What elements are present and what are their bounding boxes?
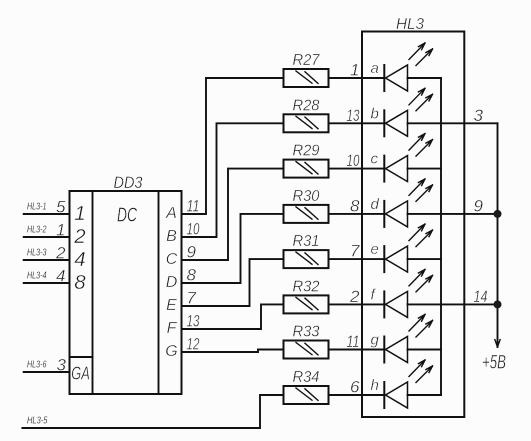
wire LED a anode to bus <box>408 77 442 79</box>
LED c cathode bar <box>383 156 385 182</box>
svg-text:h: h <box>371 377 379 394</box>
svg-text:DD3: DD3 <box>114 173 143 192</box>
svg-text:6: 6 <box>350 378 360 397</box>
LED a light arrows <box>409 43 433 66</box>
wire net HL3-5 to resistor R34 <box>22 395 283 428</box>
junction dot pin 9 <box>494 210 502 218</box>
wire into LED h <box>362 394 384 396</box>
svg-text:A: A <box>165 205 177 222</box>
wire into LED e <box>362 258 384 260</box>
svg-text:12: 12 <box>187 335 200 354</box>
wire R32 to HL3 pin 2 <box>329 303 363 305</box>
wire R31 to HL3 pin 7 <box>329 258 363 260</box>
wire DD3 C pin 9 to resistor R29 <box>182 169 284 260</box>
wire input net HL3-1 to DD3 <box>24 213 70 215</box>
wire +5V rail <box>497 123 499 347</box>
wire LED h anode to bus <box>408 394 442 396</box>
wire LED f anode to +5V rail pin 14 <box>408 303 498 305</box>
svg-text:c: c <box>371 151 379 168</box>
resistor R31 <box>284 250 329 268</box>
resistor R29 <box>284 160 329 178</box>
junction dot pin 14 <box>494 300 502 308</box>
wire DD3 F pin 13 to resistor R32 <box>182 304 284 329</box>
svg-text:HL3-2: HL3-2 <box>27 225 47 236</box>
wire DD3 G pin 12 to resistor R33 <box>182 350 284 353</box>
svg-text:8: 8 <box>350 196 360 215</box>
wire R29 to HL3 pin 10 <box>329 168 363 170</box>
svg-text:3: 3 <box>474 106 484 125</box>
wire LED g anode to bus <box>408 349 442 351</box>
wire into LED g <box>362 349 384 351</box>
LED a cathode bar <box>383 65 385 91</box>
wire into LED a <box>362 77 384 79</box>
svg-text:B: B <box>166 228 177 245</box>
svg-text:14: 14 <box>474 287 488 306</box>
svg-text:GA: GA <box>71 364 90 384</box>
svg-text:10: 10 <box>347 151 360 170</box>
svg-text:13: 13 <box>347 106 360 125</box>
svg-text:C: C <box>166 251 178 268</box>
svg-text:DC: DC <box>117 205 137 227</box>
svg-text:d: d <box>371 196 380 213</box>
wire LED e anode to bus <box>408 258 442 260</box>
LED b cathode bar <box>383 110 385 136</box>
wire input net HL3-3 to DD3 <box>24 259 70 261</box>
LED e light arrows <box>409 224 433 247</box>
IC DD3 decoder body <box>70 191 182 394</box>
LED g triangle <box>386 337 408 363</box>
wire R33 to HL3 pin 11 <box>329 349 363 351</box>
svg-text:HL3: HL3 <box>396 16 424 33</box>
svg-text:7: 7 <box>187 289 197 308</box>
wire R34 to HL3 pin 6 <box>329 394 363 396</box>
wire LED d anode to +5V rail pin 9 <box>408 213 498 215</box>
resistor R30 <box>284 205 329 223</box>
svg-text:3: 3 <box>57 356 67 375</box>
LED d cathode bar <box>383 201 385 227</box>
LED f triangle <box>386 291 408 317</box>
svg-text:HL3-5: HL3-5 <box>27 416 48 427</box>
LED h triangle <box>386 382 408 408</box>
resistor R27 <box>284 69 329 87</box>
resistor R32 <box>284 295 329 313</box>
svg-text:G: G <box>165 343 177 360</box>
LED d light arrows <box>409 179 433 202</box>
svg-text:1: 1 <box>56 221 65 240</box>
wire R30 to HL3 pin 8 <box>329 213 363 215</box>
svg-text:10: 10 <box>187 220 200 239</box>
svg-text:HL3-1: HL3-1 <box>27 202 47 213</box>
wire input net HL3-2 to DD3 <box>24 236 70 238</box>
wire input net HL3-6 to DD3 pin 3 <box>24 371 70 373</box>
svg-text:R32: R32 <box>293 278 320 295</box>
LED e cathode bar <box>383 246 385 272</box>
LED g cathode bar <box>383 337 385 363</box>
LED h cathode bar <box>383 382 385 408</box>
svg-text:D: D <box>166 274 178 291</box>
svg-text:9: 9 <box>187 243 197 262</box>
svg-text:R30: R30 <box>293 188 320 205</box>
svg-text:HL3-6: HL3-6 <box>27 360 47 371</box>
svg-text:2: 2 <box>73 225 86 248</box>
svg-text:HL3-3: HL3-3 <box>27 248 47 259</box>
svg-text:R34: R34 <box>293 369 320 386</box>
wire DD3 D pin 8 to resistor R30 <box>182 214 284 283</box>
svg-text:R27: R27 <box>293 52 321 69</box>
LED h light arrows <box>409 360 433 383</box>
LED f light arrows <box>409 269 433 292</box>
svg-text:8: 8 <box>187 266 197 285</box>
wire into LED b <box>362 122 384 124</box>
wire DD3 E pin 7 to resistor R31 <box>182 259 284 306</box>
svg-text:11: 11 <box>187 197 200 216</box>
svg-text:2: 2 <box>349 287 360 306</box>
wire DD3 A pin 11 to resistor R27 <box>182 78 284 214</box>
resistor R34 <box>284 386 329 404</box>
resistor R33 <box>284 341 329 359</box>
svg-text:11: 11 <box>347 332 360 351</box>
svg-text:F: F <box>167 320 178 337</box>
LED f cathode bar <box>383 291 385 317</box>
wire R27 to HL3 pin 1 <box>329 77 363 79</box>
svg-text:9: 9 <box>474 196 484 215</box>
wire into LED c <box>362 168 384 170</box>
svg-text:7: 7 <box>350 242 360 261</box>
svg-text:g: g <box>371 332 380 349</box>
wire into LED d <box>362 213 384 215</box>
wire R28 to HL3 pin 13 <box>329 122 363 124</box>
display HL3 body <box>362 32 464 418</box>
wire DD3 B pin 10 to resistor R28 <box>182 123 284 237</box>
LED g light arrows <box>409 315 433 338</box>
wire into LED f <box>362 303 384 305</box>
power arrow +5V <box>495 340 500 347</box>
svg-text:R28: R28 <box>293 97 320 114</box>
svg-text:13: 13 <box>187 312 200 331</box>
wire input net HL3-4 to DD3 <box>24 282 70 284</box>
LED c triangle <box>386 156 408 182</box>
svg-text:+5В: +5В <box>482 353 506 374</box>
LED e triangle <box>386 246 408 272</box>
svg-text:e: e <box>371 241 379 258</box>
svg-text:R33: R33 <box>293 324 320 341</box>
svg-text:5: 5 <box>56 198 66 217</box>
LED c light arrows <box>409 134 433 157</box>
LED b triangle <box>386 110 408 136</box>
svg-text:1: 1 <box>350 61 359 80</box>
LED d triangle <box>386 201 408 227</box>
svg-text:R31: R31 <box>293 233 320 250</box>
svg-text:a: a <box>371 60 379 77</box>
svg-text:E: E <box>166 297 177 314</box>
svg-text:b: b <box>371 105 379 122</box>
svg-text:8: 8 <box>74 271 86 294</box>
wire LED c anode to bus <box>408 168 442 170</box>
svg-text:2: 2 <box>55 244 66 263</box>
wire LED b anode to +5V rail pin 3 <box>408 122 498 124</box>
LED b light arrows <box>409 88 433 111</box>
svg-text:R29: R29 <box>293 143 320 160</box>
resistor R28 <box>284 114 329 132</box>
svg-text:4: 4 <box>56 267 65 286</box>
svg-text:1: 1 <box>74 202 85 225</box>
svg-text:HL3-4: HL3-4 <box>27 271 47 282</box>
svg-text:4: 4 <box>74 248 85 271</box>
wire anode bus inside HL3 <box>440 78 442 395</box>
LED a triangle <box>386 65 408 91</box>
